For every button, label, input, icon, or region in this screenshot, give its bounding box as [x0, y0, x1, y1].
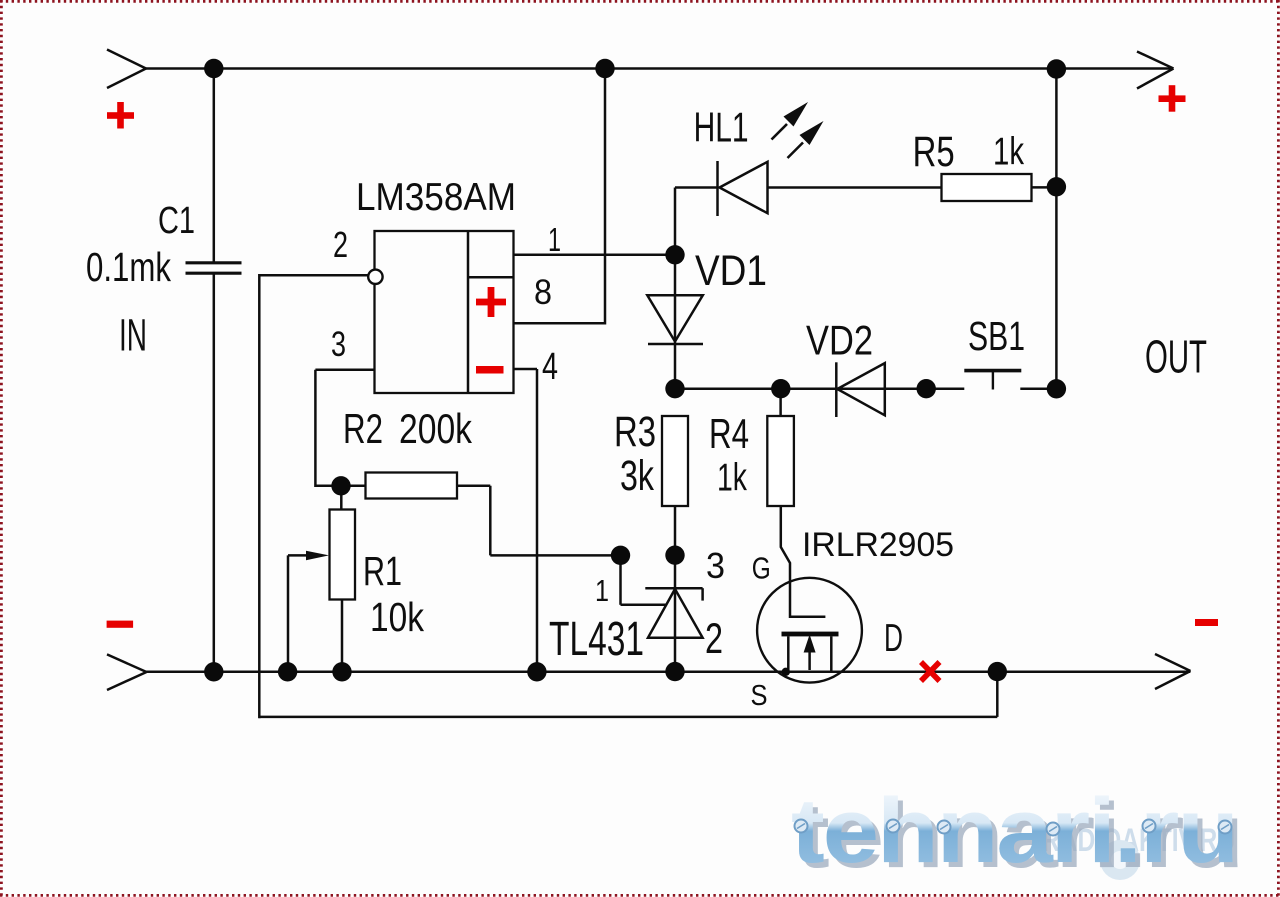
- svg-text:S: S: [751, 680, 768, 712]
- svg-text:IRLR2905: IRLR2905: [802, 526, 954, 564]
- svg-text:1: 1: [548, 221, 561, 258]
- svg-text:3k: 3k: [620, 452, 654, 500]
- svg-text:IN: IN: [119, 310, 147, 361]
- svg-text:0.1mk: 0.1mk: [86, 244, 171, 290]
- svg-text:D: D: [884, 617, 903, 660]
- svg-text:LM358AM: LM358AM: [356, 176, 516, 219]
- svg-text:200k: 200k: [399, 405, 473, 452]
- svg-text:VD1: VD1: [695, 247, 767, 295]
- svg-text:TL431: TL431: [549, 613, 644, 666]
- svg-text:tehnari.ru: tehnari.ru: [791, 780, 1237, 882]
- svg-text:2: 2: [333, 224, 348, 265]
- svg-text:R3: R3: [614, 408, 656, 456]
- svg-text:1k: 1k: [717, 457, 747, 500]
- svg-text:10k: 10k: [370, 594, 424, 640]
- svg-text:2: 2: [705, 615, 723, 663]
- svg-text:HL1: HL1: [694, 104, 749, 151]
- svg-text:3: 3: [706, 545, 725, 586]
- svg-text:G: G: [752, 551, 771, 586]
- svg-text:R1: R1: [363, 548, 402, 594]
- svg-text:8: 8: [534, 273, 552, 312]
- svg-text:1: 1: [595, 573, 609, 608]
- svg-text:R4: R4: [709, 410, 749, 457]
- svg-text:1k: 1k: [993, 131, 1024, 174]
- svg-text:R2: R2: [343, 405, 383, 452]
- svg-text:4: 4: [542, 346, 558, 388]
- svg-text:VD2: VD2: [806, 317, 873, 364]
- svg-text:3: 3: [331, 325, 346, 364]
- svg-text:C1: C1: [158, 200, 195, 242]
- svg-text:R5: R5: [913, 128, 955, 176]
- svg-text:OUT: OUT: [1145, 331, 1207, 383]
- svg-text:SB1: SB1: [968, 313, 1025, 359]
